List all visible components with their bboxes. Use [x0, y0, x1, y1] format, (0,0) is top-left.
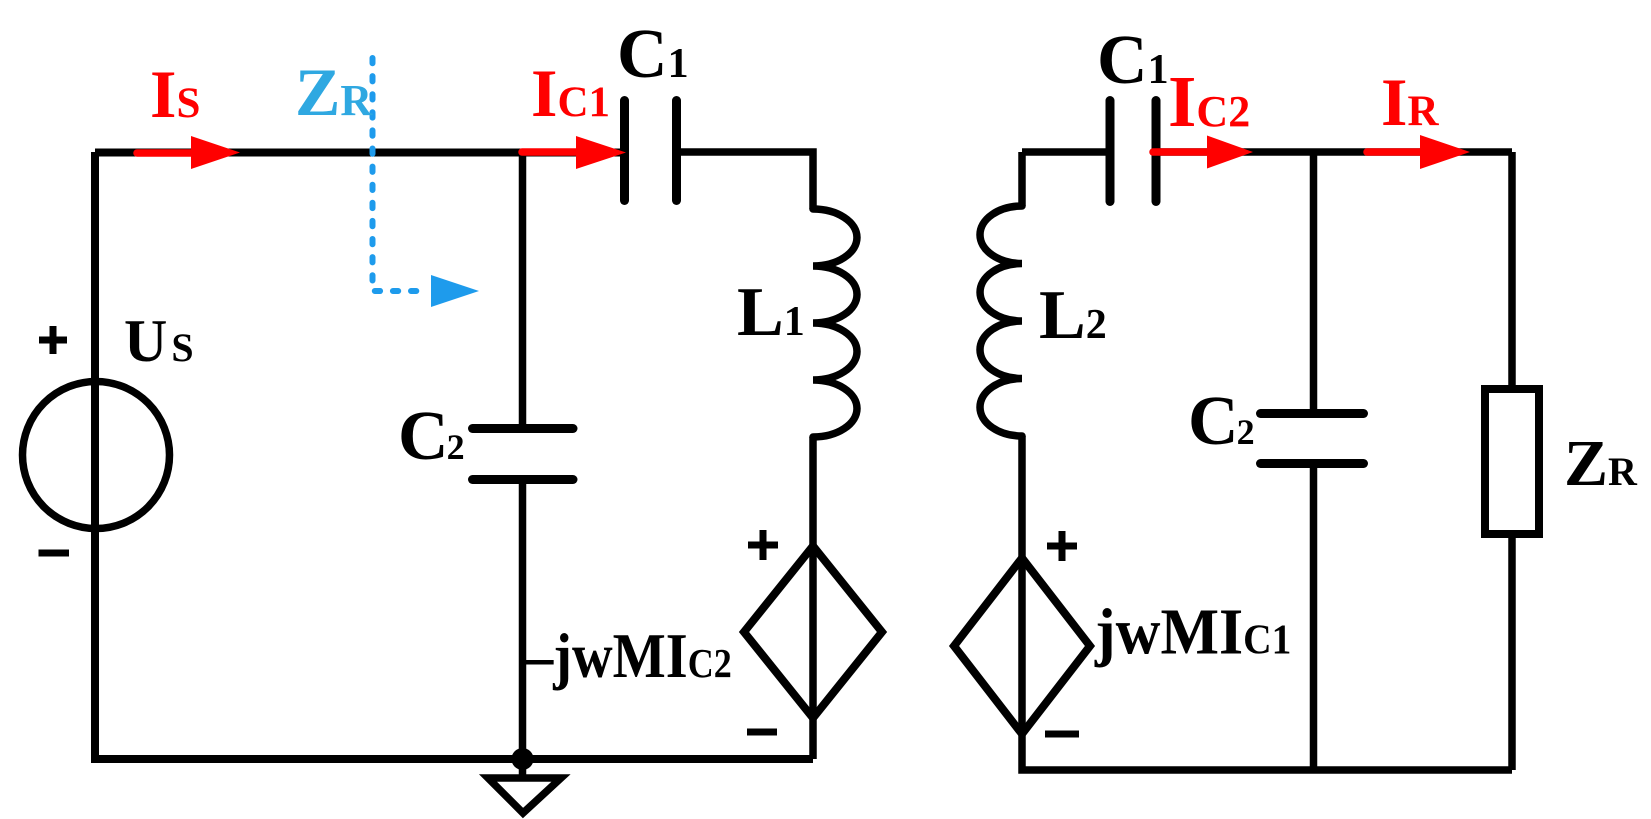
svg-text:IR: IR [1381, 64, 1439, 140]
svg-text:ZR: ZR [1564, 427, 1638, 500]
svg-text:ZR: ZR [295, 54, 373, 130]
svg-text:C1: C1 [1097, 22, 1169, 99]
svg-text:L2: L2 [1039, 277, 1107, 354]
svg-text:IC1: IC1 [531, 55, 610, 131]
svg-text:jwMIC1: jwMIC1 [1094, 595, 1291, 668]
svg-text:C1: C1 [617, 16, 689, 93]
svg-text:C2: C2 [1188, 383, 1255, 460]
svg-text:C2: C2 [398, 398, 465, 475]
svg-text:IC2: IC2 [1168, 61, 1250, 142]
svg-text:US: US [124, 308, 194, 374]
svg-text:L1: L1 [737, 274, 805, 351]
svg-text:IS: IS [150, 56, 200, 132]
svg-text:–jwMIC2: –jwMIC2 [524, 621, 732, 692]
